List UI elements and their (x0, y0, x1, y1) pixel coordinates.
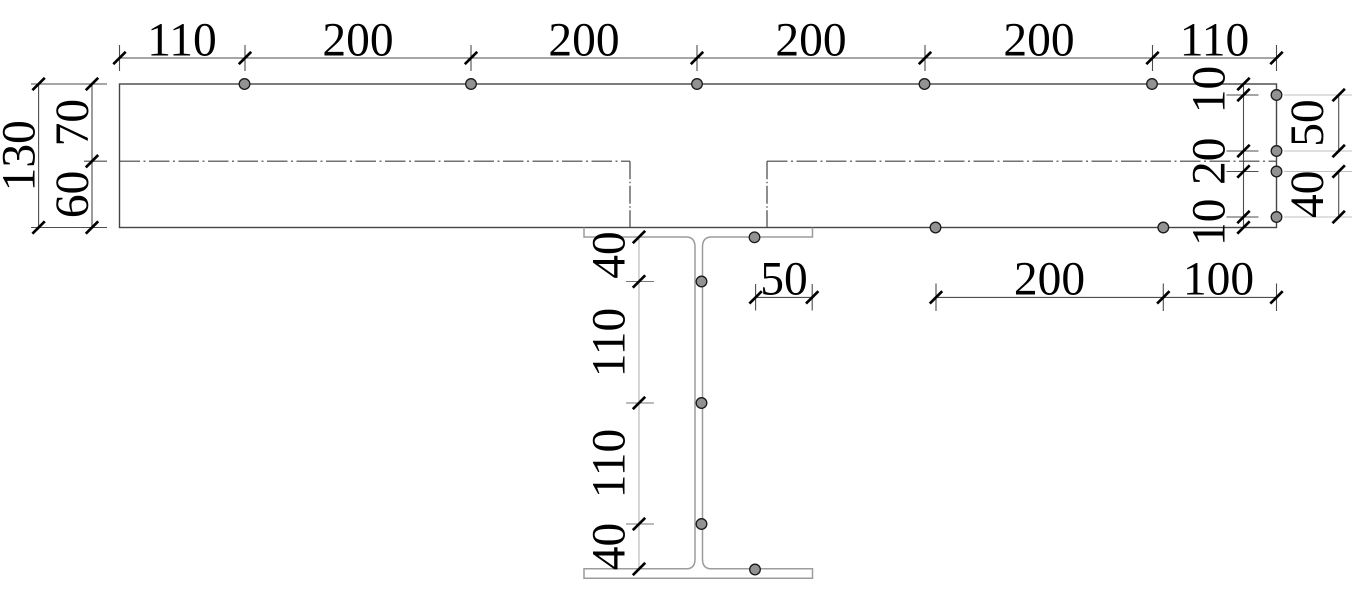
flange 50 dimension ticks (749, 291, 818, 303)
beam web dimension line 40/110/110/40 (638, 237, 640, 569)
left dimension ticks (32, 78, 98, 234)
bottom right dimension ticks (930, 291, 1283, 303)
gauge dots on slab bottom edge (930, 222, 1168, 233)
svg-text:40: 40 (584, 523, 636, 571)
gauge dots on slab right edge (1271, 90, 1282, 223)
top dimension line (120, 57, 1277, 59)
rebar centerline dash-dot left segment (120, 160, 631, 162)
bottom right dimension line 200/100 (936, 296, 1277, 298)
svg-text:200: 200 (548, 15, 619, 67)
svg-text:110: 110 (584, 308, 636, 378)
bottom right dimension extension lines (936, 284, 1277, 312)
dashed vertical left of beam pocket (629, 161, 631, 227)
svg-text:20: 20 (1184, 137, 1236, 185)
svg-text:130: 130 (0, 120, 46, 191)
svg-text:110: 110 (584, 429, 636, 499)
svg-text:200: 200 (1014, 253, 1085, 305)
top dimension labels (147, 15, 1249, 67)
left overall dimension line 130 (38, 84, 40, 228)
gauge dots on web (696, 276, 707, 529)
right outer extension crossbars (1284, 95, 1352, 217)
right outer dimension line 40 (1338, 170, 1340, 219)
svg-text:50: 50 (760, 253, 808, 305)
top extension lines (120, 45, 1277, 71)
flange 50 dimension extension lines (756, 284, 813, 311)
svg-text:40: 40 (1282, 171, 1334, 219)
flange 50 dimension line (756, 296, 813, 298)
svg-text:110: 110 (147, 15, 217, 67)
svg-text:200: 200 (322, 15, 393, 67)
right outer dimension ticks (1333, 89, 1345, 223)
svg-text:40: 40 (584, 231, 636, 279)
concrete slab outline (120, 84, 1277, 228)
svg-text:50: 50 (1282, 99, 1334, 147)
gauge dot on bottom flange (750, 564, 761, 575)
svg-text:200: 200 (1003, 15, 1074, 67)
beam web extension crossbars (626, 282, 654, 525)
dashed vertical right of beam pocket (766, 161, 768, 227)
beam web dimension ticks (633, 231, 645, 575)
left extension lines (31, 84, 107, 228)
svg-text:100: 100 (1183, 253, 1254, 305)
svg-text:60: 60 (47, 171, 99, 219)
right inner extension crossbars (1227, 95, 1259, 217)
top dimension ticks (113, 52, 1282, 64)
gauge dot on top flange (749, 232, 760, 243)
rebar centerline dash-dot right segment (767, 160, 1277, 162)
gauge dots on slab top edge (239, 79, 1157, 90)
svg-text:10: 10 (1184, 66, 1236, 114)
svg-text:10: 10 (1184, 199, 1236, 247)
left inner dimension line 70/60 (91, 84, 93, 228)
steel I-beam outline (584, 228, 813, 579)
svg-text:70: 70 (47, 99, 99, 147)
svg-text:200: 200 (775, 15, 846, 67)
right inner dimension ticks (1237, 78, 1249, 234)
right inner dimension line 10/20/10 (1243, 84, 1245, 228)
right outer dimension line 50 (1338, 94, 1340, 153)
svg-text:110: 110 (1180, 15, 1250, 67)
